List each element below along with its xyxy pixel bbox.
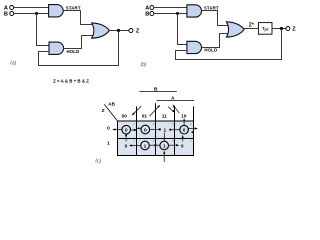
up arrow from cell(1,00) to circle(0,00) (125, 135, 127, 141)
wire B to AND1 (b) (154, 13, 187, 15)
stable state circle row0 col01 (141, 125, 150, 134)
wire OR out to delay box, net Z* (b) (244, 28, 258, 30)
svg-text:Z: Z (136, 28, 140, 34)
svg-text:(b): (b) (140, 62, 146, 68)
faint cell corner ticks (133, 123, 191, 142)
svg-text:11: 11 (162, 114, 167, 120)
stable state circle row0 col10 (180, 125, 189, 134)
svg-text:B: B (145, 12, 149, 18)
wire START out to OR (a) (63, 11, 93, 25)
B bracket line (139, 91, 176, 93)
A bracket line (157, 100, 195, 102)
transition line circle(1,01) to circle(1,11) with dot (149, 144, 160, 146)
svg-text:HOLD: HOLD (67, 49, 80, 54)
OR gate (b) (226, 22, 244, 37)
transition line circle(0,00) to dot (131, 129, 135, 131)
transition arrow into circle(0,01) pointing left (138, 127, 141, 129)
svg-text:0: 0 (107, 126, 110, 132)
feedback wire Z to HOLD (b) (176, 29, 282, 60)
wire B to AND1 (a) (14, 13, 49, 15)
transition line circle(0,01) to dot in col11 (150, 128, 159, 130)
transition arrow circle(1,11) to 0 of cell(1,10) (169, 144, 178, 146)
output terminal Z (b) (286, 27, 290, 31)
AND gate HOLD (b) (187, 41, 202, 53)
wire OR out to Z (a) (109, 30, 128, 32)
transition line dot in col11 to circle(0,10) (169, 129, 171, 131)
svg-text:1: 1 (163, 143, 166, 149)
wire A to AND1 (b) (154, 7, 187, 9)
svg-text:0: 0 (183, 128, 186, 134)
svg-text:01: 01 (142, 114, 148, 120)
wire A to AND1 (a) (14, 7, 49, 9)
svg-text:B: B (4, 12, 8, 18)
feedback wire Z to HOLD (a) (39, 31, 119, 66)
wire HOLD out to OR (a) (64, 36, 94, 49)
wire HOLD out to OR (b) (202, 34, 229, 48)
down arrow from 1 of cell(0,11) to circle(1,11) (163, 133, 165, 139)
svg-text:0: 0 (144, 127, 147, 133)
up arrow from cell(1,10) to circle(0,10) (182, 137, 184, 141)
svg-text:AB: AB (108, 102, 115, 107)
table cell fill (118, 121, 194, 156)
svg-text:(a): (a) (10, 60, 16, 66)
svg-text:HOLD: HOLD (204, 47, 217, 52)
arrow into 0 of cell(1,00) from circle(1,01) (131, 145, 141, 147)
svg-text:A: A (4, 5, 8, 11)
svg-text:1: 1 (144, 143, 147, 149)
wire B branch to HOLD (a) (37, 14, 50, 46)
header diagonal arrow up-right from col01/11 (149, 107, 158, 117)
svg-text:A: A (145, 5, 149, 11)
input terminal A (a) (10, 6, 14, 10)
AND gate START (b) (187, 5, 202, 17)
transition arrow exiting right, row 0 (189, 128, 196, 130)
svg-text:00: 00 (122, 114, 128, 120)
junction Z feedback (a) (117, 29, 120, 32)
transition arrow exiting left, row 0 (115, 129, 122, 131)
input terminal B (b) (150, 12, 154, 16)
svg-text:Z: Z (292, 27, 296, 33)
wire START out to OR (b) (202, 11, 229, 26)
svg-text:1: 1 (107, 140, 110, 146)
svg-text:START: START (66, 5, 81, 10)
svg-text:1: 1 (163, 128, 166, 134)
svg-text:(c): (c) (95, 159, 101, 165)
stable state circle row1 col01 (141, 141, 150, 150)
junction on B wire (b) (176, 12, 179, 15)
stable state circle row0 col00 (122, 125, 131, 134)
svg-text:0: 0 (125, 143, 128, 149)
input terminal B (a) (10, 12, 14, 16)
junction Z feedback (b) (280, 27, 283, 30)
svg-text:Z*: Z* (249, 22, 254, 28)
header diagonal arrow down-left into col00/01 (134, 106, 142, 114)
svg-text:B: B (154, 86, 158, 92)
output terminal Z (a) (129, 29, 133, 33)
svg-text:Tpd: Tpd (262, 26, 269, 32)
arrow entering from below table into circle(1,11) (163, 153, 165, 162)
svg-text:Z = A & B + B & Z: Z = A & B + B & Z (53, 79, 89, 84)
svg-text:0: 0 (125, 128, 128, 134)
AND gate START (a) (49, 5, 64, 17)
header diagonal arrow down-right into col11/10 (168, 107, 173, 112)
diagonal corner divider (104, 104, 117, 121)
input terminal A (b) (150, 6, 154, 10)
wire delay box to Z terminal (b) (272, 28, 286, 30)
OR gate (a) (92, 23, 110, 38)
junction on B wire (a) (35, 12, 38, 15)
svg-text:START: START (204, 6, 219, 11)
wire B branch to HOLD (b) (178, 14, 188, 45)
svg-text:A: A (171, 96, 175, 102)
small dot near right edge row0 (191, 131, 193, 133)
up arrow from circle(0,10) exiting table top (183, 120, 185, 125)
svg-text:Z: Z (102, 108, 105, 113)
delay element Tpd box (b) (258, 23, 272, 35)
AND gate HOLD (a) (49, 42, 64, 54)
header diagonal arrow up-left from col10 (174, 106, 179, 113)
stable state circle row1 col11 (160, 141, 169, 150)
table outer and grid lines (117, 121, 194, 156)
svg-text:0: 0 (181, 143, 184, 149)
